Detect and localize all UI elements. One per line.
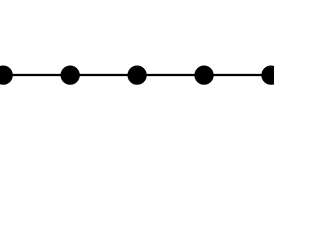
node A [0,66,13,85]
node B [61,66,80,85]
node D [194,66,213,85]
wire [204,74,271,76]
node C [127,66,146,85]
wire [3,74,70,76]
wire [137,74,204,76]
node E [261,66,280,85]
wire [70,74,137,76]
